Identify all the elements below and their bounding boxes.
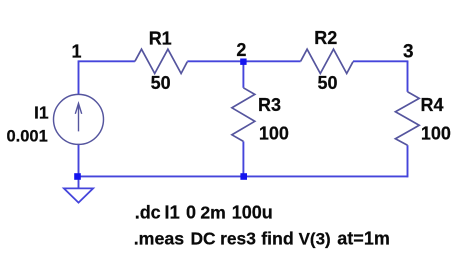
spice directive line 1: .dc — [135, 202, 273, 223]
svg-text:1: 1 — [71, 41, 81, 61]
svg-text:3: 3 — [403, 42, 414, 63]
wire right: node3 to R4 — [407, 61, 409, 92]
svg-text:100: 100 — [259, 123, 289, 143]
svg-text:R3: R3 — [258, 95, 281, 115]
wire top: R1 to R2 through node 2 — [187, 60, 300, 62]
svg-text:DC: DC — [191, 229, 217, 249]
svg-text:R1: R1 — [149, 29, 172, 49]
wire: ground stub — [78, 176, 80, 188]
current source I1 circle — [54, 94, 104, 144]
svg-text:res3: res3 — [220, 229, 256, 249]
wire top: node1 to R1 — [79, 60, 135, 62]
svg-text:0.001: 0.001 — [7, 127, 48, 145]
svg-text:I1: I1 — [164, 202, 179, 223]
svg-text:V(3): V(3) — [299, 230, 331, 249]
junction node 2 — [240, 59, 246, 65]
svg-text:50: 50 — [151, 73, 171, 93]
current source I1 arrow — [75, 103, 81, 131]
wire left: current source to ground junction — [78, 144, 80, 176]
junction ground — [74, 173, 81, 180]
spice directive line 2: .meas — [134, 229, 390, 249]
resistor R3 body — [232, 88, 255, 142]
svg-text:100u: 100u — [232, 203, 273, 223]
junction bottom middle — [240, 173, 247, 180]
svg-text:2: 2 — [236, 40, 246, 60]
svg-text:I1: I1 — [34, 103, 49, 123]
svg-text:0: 0 — [186, 203, 196, 223]
svg-text:.meas: .meas — [134, 229, 185, 249]
resistor R2 body — [301, 49, 353, 73]
svg-text:find: find — [261, 229, 294, 249]
svg-text:50: 50 — [318, 73, 338, 93]
wire middle: R3 to bottom junction — [242, 141, 244, 176]
svg-text:2m: 2m — [200, 203, 225, 223]
svg-text:at=1m: at=1m — [337, 229, 390, 249]
wire right: R4 to bottom wire — [407, 145, 409, 177]
svg-text:R4: R4 — [421, 95, 444, 115]
ground — [64, 188, 93, 202]
wire bottom: ground junction to right corner — [79, 175, 408, 177]
svg-text:100: 100 — [421, 124, 451, 144]
wire middle: node2 to R3 — [242, 61, 244, 88]
wire left: node1 down to current source — [78, 60, 80, 94]
resistor R4 body — [395, 92, 419, 145]
svg-text:R2: R2 — [314, 28, 337, 48]
resistor R1 body — [135, 49, 187, 73]
wire top: R2 to node 3 — [353, 60, 408, 62]
svg-text:.dc: .dc — [135, 203, 161, 223]
